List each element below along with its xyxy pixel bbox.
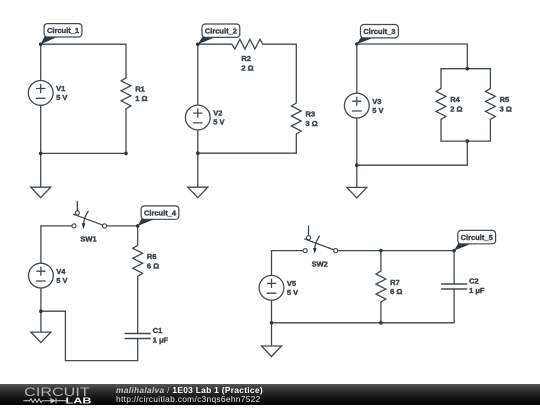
capacitor C1 [125,326,168,344]
wire R2 to corner [263,43,296,45]
svg-text:SW1: SW1 [80,235,96,244]
svg-text:Circuit_4: Circuit_4 [144,209,177,218]
wire V4 to SW1 [41,225,72,227]
wire R5 top lead [489,69,491,89]
svg-text:5 V: 5 V [372,106,383,115]
wire down to parallel top [466,44,468,69]
wire R3 bottom lead [295,134,297,153]
wire V5 top lead [271,251,273,276]
switch SW1 [72,202,107,244]
junction parallel top [466,67,470,71]
resistor R4 [436,88,462,119]
switch SW2 [303,226,338,268]
wire V4 bottom lead [40,288,42,311]
wire bottom net circuit 4 [65,360,137,362]
wire to ground 1 [40,153,42,187]
wire bottom net circuit 1 [41,152,126,154]
wire V1 bottom lead [40,105,42,153]
svg-text:V1: V1 [56,84,65,93]
wire V5 to SW2 [272,250,304,252]
svg-text:V3: V3 [372,97,381,106]
footer bar [0,384,540,405]
junction R1 bottom [124,152,128,156]
node Circuit_3 junction [355,42,359,46]
node label Circuit_3 [357,25,399,45]
capacitor C2 [442,277,485,295]
node Circuit_1 junction [39,42,43,46]
voltage source V2 [185,105,224,130]
voltage source V5 [259,275,298,300]
wire top net Circuit_3 [357,43,468,45]
wire R3 top lead [295,44,297,103]
wire parallel bottom [441,140,490,142]
wire top net Circuit_1 [41,43,126,45]
wire V3 bottom lead [356,118,358,165]
junction V2- / ground [196,151,200,155]
wire to R2 left [198,43,232,45]
wire SW1 to node Circuit_4 [106,225,138,227]
resistor R3 [291,103,317,134]
junction V3- / ground [355,163,359,167]
wire R4 top lead [440,69,442,89]
svg-text:2 Ω: 2 Ω [450,105,462,114]
svg-text:5 V: 5 V [56,276,67,285]
svg-text:R7: R7 [390,278,400,287]
node Circuit_5 junction [452,249,456,253]
svg-text:V5: V5 [287,279,296,288]
svg-text:1 μF: 1 μF [153,336,169,345]
svg-text:6 Ω: 6 Ω [147,261,159,270]
wire V3 top lead [356,44,358,93]
svg-text:6 Ω: 6 Ω [390,287,402,296]
node label Circuit_1 [41,24,82,45]
voltage source V4 [29,263,68,288]
wire R5 bottom lead [489,119,491,141]
wire C2 bottom lead [453,289,455,323]
svg-text:R4: R4 [450,95,460,104]
junction R7 bottom [379,321,383,325]
svg-text:Circuit_3: Circuit_3 [363,27,395,36]
svg-text:5 V: 5 V [213,118,224,127]
svg-text:Circuit_1: Circuit_1 [47,26,79,35]
wire R1 bottom lead [125,109,127,154]
ground circuit 4 [31,332,51,343]
junction V4- / ground [39,309,43,313]
resistor R2 [232,39,263,72]
svg-text:C2: C2 [469,277,479,286]
wire bottom net circuit 3 [357,164,468,166]
wire R6 to C1 [137,276,139,333]
svg-text:SW2: SW2 [312,259,328,268]
svg-text:R6: R6 [147,252,157,261]
junction R7 top [379,249,383,253]
wire to ground 2 [197,153,199,187]
resistor R1 [121,78,147,109]
wire V4 top lead [40,226,42,263]
junction V5- / ground [270,321,274,325]
svg-text:V4: V4 [56,267,66,276]
ground circuit 2 [188,187,208,198]
wire to ground 3 [356,165,358,187]
ground circuit 3 [347,187,367,198]
wire bottom net circuit 2 [198,152,296,154]
resistor R5 [486,88,512,119]
svg-text:3 Ω: 3 Ω [306,119,318,128]
wire R6 top lead [137,226,139,245]
wire C1 bottom lead [137,339,139,361]
voltage source V3 [344,93,383,118]
wire R4 bottom lead [440,119,442,141]
wire V5 bottom lead [271,300,273,323]
node Circuit_4 junction [136,224,140,228]
svg-text:R2: R2 [241,54,251,63]
node Circuit_2 junction [196,42,200,46]
wire bottom riser circuit 4 [64,311,66,360]
node label Circuit_5 [454,230,495,250]
svg-text:R3: R3 [306,110,316,119]
svg-text:3 Ω: 3 Ω [500,105,512,114]
svg-text:1 Ω: 1 Ω [135,94,147,103]
svg-text:5 V: 5 V [56,93,67,102]
wire R1 top lead [125,44,127,78]
wire V2 bottom lead [197,130,199,153]
svg-text:C1: C1 [153,326,163,335]
wire to ground 5 [271,323,273,346]
wire V4- branch [41,310,66,312]
svg-text:5 V: 5 V [287,288,298,297]
wire R7 bottom lead [380,302,382,323]
svg-text:Circuit_5: Circuit_5 [461,233,493,242]
svg-text:R5: R5 [500,95,510,104]
wire V1 top lead [40,44,42,80]
wire C2 top lead [453,251,455,284]
wire SW2 to C2 top [338,250,455,252]
wire parallel top [441,68,490,70]
junction parallel bottom [466,139,470,143]
svg-text:2 Ω: 2 Ω [241,63,253,72]
svg-text:V2: V2 [213,109,222,118]
resistor R7 [376,271,402,302]
node label Circuit_4 [138,206,179,226]
wire to ground 4 [40,311,42,332]
svg-text:LAB: LAB [66,397,92,405]
wire parallel to bottom net [466,141,468,165]
svg-text:R1: R1 [135,85,145,94]
svg-text:Circuit_2: Circuit_2 [205,27,237,36]
wire R7 top lead [380,251,382,272]
ground circuit 5 [262,346,282,357]
node label Circuit_2 [198,24,240,44]
resistor R6 [133,245,159,276]
ground circuit 1 [31,187,51,198]
junction V1- / ground [39,152,43,156]
wire bottom net circuit 5 [272,322,455,324]
svg-text:1 μF: 1 μF [469,286,485,295]
wire V2 top lead [197,44,199,105]
CircuitLab logo [21,385,96,405]
voltage source V1 [28,81,67,106]
